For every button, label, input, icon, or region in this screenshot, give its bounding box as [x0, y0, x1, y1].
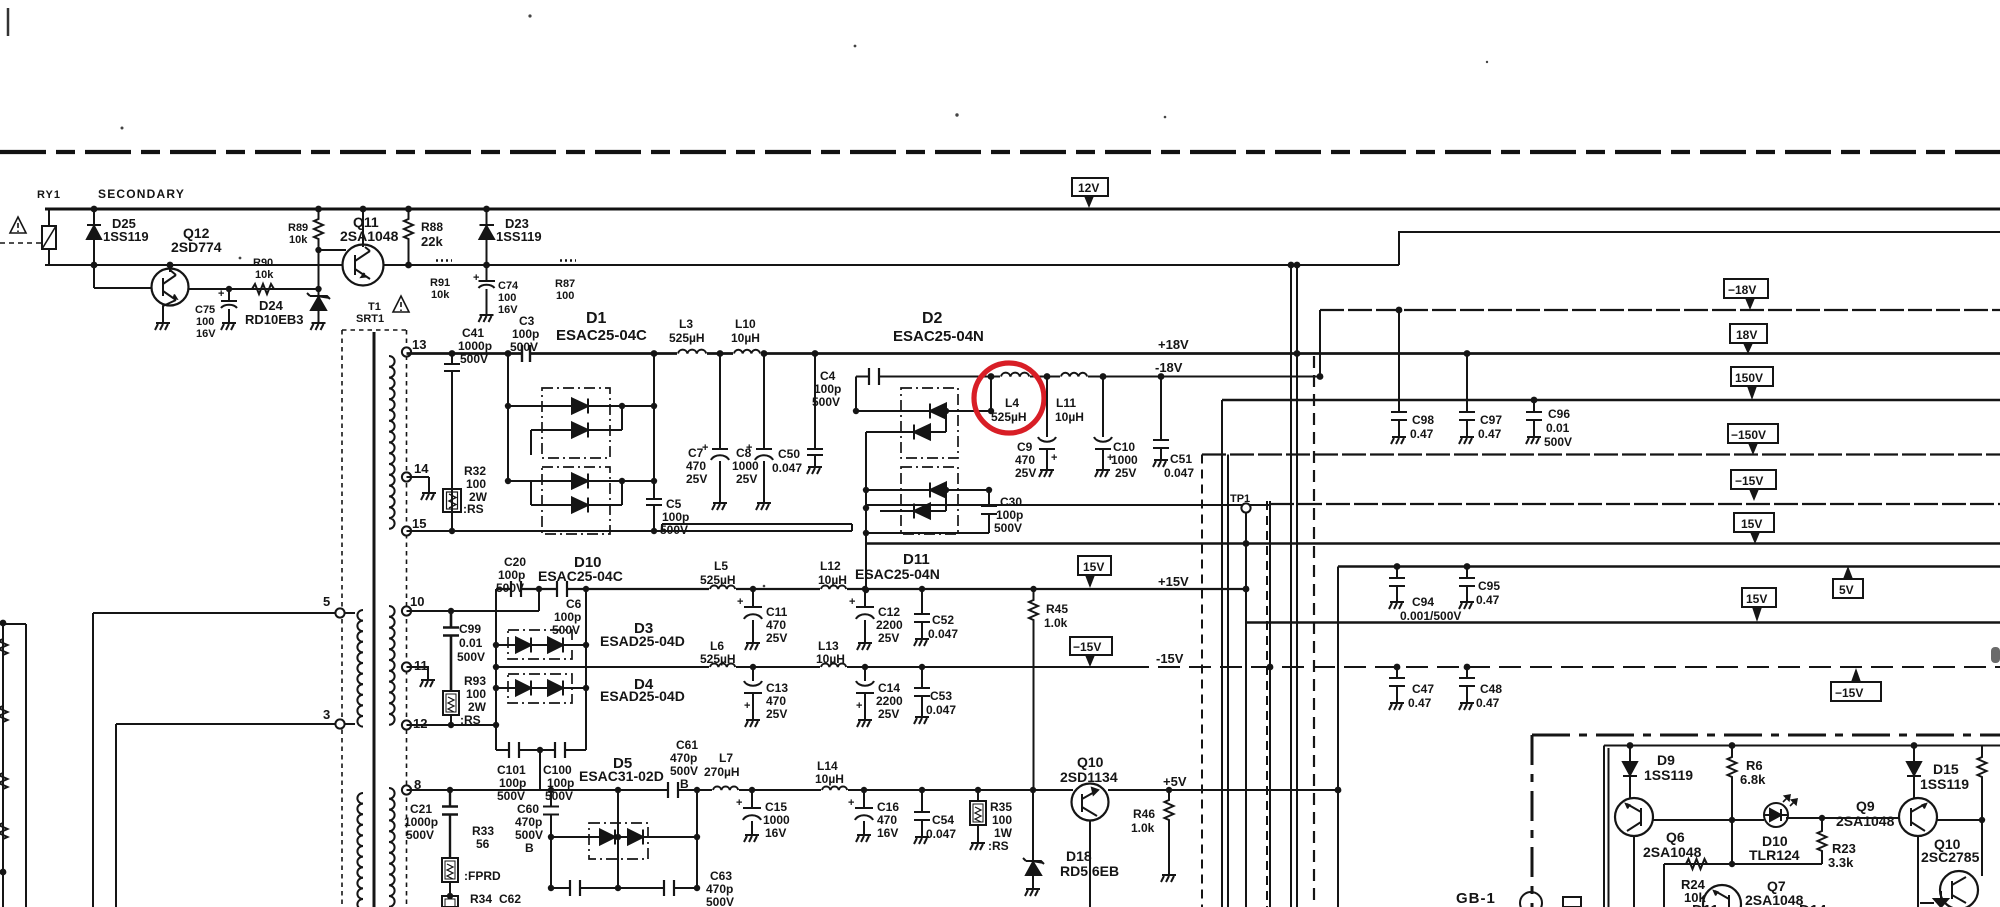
svg-text:0.47: 0.47: [1476, 593, 1500, 607]
svg-text:100p: 100p: [814, 382, 841, 396]
svg-text:2SA1048: 2SA1048: [1643, 844, 1702, 860]
rectifier D3 box: [508, 630, 572, 659]
svg-text:0.47: 0.47: [1476, 696, 1500, 710]
5V distribution rail: [1338, 565, 2000, 567]
D1 output riser with capacitor C5: [646, 354, 662, 532]
D4 diode line: [496, 687, 586, 689]
svg-text:25V: 25V: [878, 631, 899, 645]
resistor far right: [1978, 746, 1987, 821]
D5 right riser: [696, 790, 698, 888]
svg-text:2SD774: 2SD774: [171, 239, 222, 255]
svg-text:R34: R34: [470, 892, 492, 906]
svg-text:1000: 1000: [763, 813, 790, 827]
svg-text:470: 470: [1015, 453, 1035, 467]
svg-text:56: 56: [476, 837, 490, 851]
wire pin 12 line: [407, 724, 497, 726]
svg-text:C47: C47: [1412, 682, 1434, 696]
svg-text:+: +: [737, 596, 743, 608]
svg-text::RS: :RS: [988, 839, 1009, 853]
pin 5 circle and number: [335, 608, 344, 617]
vertical bus at x1297: [1296, 265, 1298, 907]
wire relay to bus A: [48, 209, 50, 226]
rectifier D5 box: [589, 823, 648, 859]
wire L4 riser from D2 output: [990, 377, 992, 412]
vertical bus dashed at x1267: [1266, 501, 1268, 907]
svg-text:3.3k: 3.3k: [1828, 855, 1854, 870]
D5 mid riser: [617, 790, 619, 888]
D5 diode line: [551, 836, 697, 838]
transistor Q12 circle: [152, 269, 189, 306]
svg-text:R23: R23: [1832, 841, 1856, 856]
left chain resistor 3: [0, 773, 8, 789]
wire Q9 emitter down: [1917, 836, 1919, 907]
150V arrow: [1747, 386, 1757, 400]
svg-text:D24: D24: [259, 298, 284, 313]
svg-text:15V: 15V: [1746, 592, 1767, 606]
transformer core: [373, 332, 376, 907]
junction dots 5V rail: [1394, 563, 1471, 570]
svg-text:25V: 25V: [878, 707, 899, 721]
svg-text:R46: R46: [1133, 807, 1155, 821]
series capacitor C101: [509, 742, 519, 758]
svg-text:B: B: [680, 777, 689, 791]
series capacitor on bottom line (right): [664, 880, 674, 896]
svg-text:C8: C8: [736, 446, 752, 460]
dashed wire into relay: [0, 242, 42, 244]
-15V line: [496, 666, 1127, 668]
transistor Q9 circle: [1899, 798, 1937, 836]
ground below C52: [914, 634, 929, 646]
svg-text:D18: D18: [1066, 848, 1092, 864]
scan speck marks: [121, 14, 1489, 587]
svg-text:500V: 500V: [812, 395, 840, 409]
wire Q10 collector down: [1089, 821, 1091, 907]
svg-text:16V: 16V: [765, 826, 786, 840]
capacitor C96: [1526, 400, 1542, 432]
svg-text:C4: C4: [820, 369, 836, 383]
svg-text:5V: 5V: [1839, 583, 1854, 597]
15V arrow (second): [1752, 607, 1762, 622]
svg-text:1000: 1000: [732, 459, 759, 473]
GB-1 dash-dot border horizontal: [1532, 734, 2000, 737]
transformer secondary winding pin 8 down: [389, 788, 395, 907]
inductor L3: [677, 351, 707, 357]
svg-text:470: 470: [877, 813, 897, 827]
-18V distribution rail: [1320, 309, 2000, 311]
svg-text:500V: 500V: [457, 650, 485, 664]
inductor L14: [821, 787, 848, 793]
svg-text:25V: 25V: [766, 707, 787, 721]
svg-text:150V: 150V: [1735, 371, 1763, 385]
junction dots bus B: [91, 247, 1301, 292]
ground below C15: [744, 830, 759, 842]
D1 diode row 2: [531, 406, 622, 430]
GB-1 inner board border left (double): [1604, 746, 1609, 907]
svg-text:10µH: 10µH: [731, 331, 760, 345]
zener D24: [307, 289, 330, 318]
svg-text:C41: C41: [462, 326, 484, 340]
D3/D4 right riser: [585, 589, 587, 750]
-18V label box: [1724, 279, 1768, 298]
svg-text:C30: C30: [1000, 495, 1022, 509]
svg-text:C15: C15: [765, 800, 787, 814]
svg-text:ESAC31-02D: ESAC31-02D: [579, 768, 664, 784]
capacitor C15: [743, 790, 761, 830]
resistor R35 (box style): [977, 790, 979, 801]
svg-text:C101: C101: [497, 763, 526, 777]
transistor Q11 circle: [343, 245, 384, 286]
svg-text:+: +: [736, 797, 742, 809]
svg-text:+: +: [848, 797, 854, 809]
svg-text:0.047: 0.047: [928, 627, 958, 641]
svg-text:R93: R93: [464, 674, 486, 688]
svg-text:C13: C13: [766, 681, 788, 695]
warning symbol near T1: [393, 296, 409, 312]
svg-text:14: 14: [414, 461, 429, 476]
wire Q11 collector to bus A: [363, 209, 370, 251]
capacitor C9: [1038, 377, 1056, 466]
svg-text:GB-1: GB-1: [1456, 890, 1496, 907]
svg-text:C54: C54: [932, 813, 954, 827]
ground below C96: [1526, 432, 1541, 444]
svg-text:C5: C5: [666, 497, 682, 511]
ground below C9: [1039, 465, 1054, 477]
svg-text:C99: C99: [459, 622, 481, 636]
+5V feed line (pin 8): [407, 789, 1339, 791]
wire pin 14 line: [407, 477, 430, 488]
svg-text:+: +: [1051, 452, 1057, 464]
pin 3 circle and number: [335, 719, 344, 728]
ground below C75: [221, 318, 236, 330]
capacitor C21: [442, 790, 458, 858]
transistor Q10 (GB-1) circle: [1940, 871, 1978, 907]
svg-text:C3: C3: [519, 314, 535, 328]
svg-text:R35: R35: [990, 800, 1012, 814]
svg-text:500V: 500V: [515, 828, 543, 842]
resistor R32 (box style on C41 riser): [443, 489, 461, 512]
wire Q12 base line (node to D24/R89): [94, 288, 320, 289]
bus B step up at right: [1399, 232, 2000, 265]
wire pin 3 line: [116, 723, 355, 725]
15V arrow (mid): [1085, 575, 1095, 588]
svg-text:16V: 16V: [877, 826, 898, 840]
svg-text:R87: R87: [555, 278, 575, 290]
svg-text:L12: L12: [820, 559, 841, 573]
pin 15 circle and number: [402, 526, 411, 535]
-15V distribution rail: [866, 504, 1270, 506]
resistor R46: [1165, 790, 1174, 870]
wire Q6 emitter down: [1633, 836, 1635, 907]
inductor L6: [709, 664, 736, 670]
svg-text:500V: 500V: [406, 828, 434, 842]
svg-text:1SS119: 1SS119: [1644, 767, 1693, 783]
svg-text:0.047: 0.047: [926, 703, 956, 717]
svg-text:D1: D1: [586, 310, 607, 327]
pin 14 circle and number: [402, 472, 411, 481]
svg-text:1000p: 1000p: [458, 339, 492, 353]
svg-text:12V: 12V: [1078, 181, 1099, 195]
svg-text:0.01: 0.01: [1546, 421, 1570, 435]
LED D10 symbol: [1765, 809, 1787, 821]
12V arrow: [1084, 196, 1094, 208]
15V label box: [1734, 513, 1774, 532]
svg-text:25V: 25V: [686, 472, 707, 486]
svg-text:C61: C61: [676, 738, 698, 752]
18V arrow: [1743, 343, 1753, 354]
diode D23: [486, 209, 488, 265]
svg-text:10µH: 10µH: [816, 652, 845, 666]
svg-text:−15V: −15V: [1735, 474, 1763, 488]
svg-text:SRT1: SRT1: [356, 313, 384, 325]
D1 diode row 4: [531, 481, 622, 505]
svg-text:L6: L6: [710, 639, 724, 653]
capacitor C41 across winding: [444, 354, 460, 532]
15V label box (second): [1742, 588, 1776, 607]
resistor R24 (zigzag on line): [1686, 859, 1707, 869]
svg-text:100p: 100p: [499, 776, 526, 790]
svg-text:25V: 25V: [766, 631, 787, 645]
wire bottom line to pin8 line riser: [539, 750, 541, 790]
ground below C48: [1459, 698, 1474, 710]
svg-text:TP1: TP1: [1230, 493, 1250, 505]
ground below C11: [745, 638, 760, 650]
svg-text:10µH: 10µH: [818, 573, 847, 587]
junction dots GB-1: [1627, 742, 1986, 867]
capacitor C97: [1459, 354, 1475, 433]
capacitor C11: [744, 589, 762, 638]
15V label box (mid): [1078, 556, 1111, 575]
svg-text:500V: 500V: [460, 352, 488, 366]
svg-text:−15V: −15V: [1835, 686, 1863, 700]
relay RY1 contact box: [42, 226, 56, 249]
capacitor C95: [1459, 567, 1475, 598]
svg-text:C97: C97: [1480, 413, 1502, 427]
wire relay to bus B: [48, 249, 50, 265]
svg-text:470p: 470p: [515, 815, 542, 829]
svg-text:100p: 100p: [554, 610, 581, 624]
junction dots on riser x866: [863, 487, 869, 593]
svg-text:0.47: 0.47: [1408, 696, 1432, 710]
svg-text:525µH: 525µH: [700, 652, 736, 666]
capacitor C48: [1459, 667, 1475, 698]
svg-text:1W: 1W: [994, 826, 1013, 840]
svg-text:22k: 22k: [421, 234, 443, 249]
svg-text:0.047: 0.047: [1164, 466, 1194, 480]
svg-text::FPRD: :FPRD: [464, 869, 501, 883]
5V label box: [1833, 579, 1863, 598]
ground below C53: [914, 712, 929, 724]
junction dots +15V rail: [536, 540, 1250, 592]
svg-text:ESAC25-04C: ESAC25-04C: [556, 327, 647, 344]
-15V arrow: [1749, 489, 1759, 501]
svg-text:10µH: 10µH: [815, 772, 844, 786]
svg-text:100: 100: [196, 316, 214, 328]
svg-text:16V: 16V: [498, 304, 518, 316]
resistor R23: [1818, 818, 1827, 864]
svg-text:SECONDARY: SECONDARY: [98, 187, 185, 201]
wire R89/D24 junction vertical: [318, 250, 320, 289]
wire corner -18V to rail: [1319, 310, 1321, 377]
svg-text:15: 15: [412, 516, 426, 531]
ground below C10: [1095, 465, 1110, 477]
pin 10 circle and number: [402, 606, 411, 615]
svg-text:+5V: +5V: [1163, 774, 1187, 789]
wire pin 5 line: [93, 612, 355, 614]
resistor R45: [1029, 589, 1038, 790]
150V distribution rail: [1222, 399, 2000, 401]
svg-text:16V: 16V: [196, 328, 216, 340]
svg-text:TLR124: TLR124: [1749, 847, 1800, 863]
ground below C50: [807, 462, 822, 474]
diode D15 wire: [1913, 746, 1915, 800]
transformer primary winding pins 5-3: [357, 610, 363, 727]
svg-text:R91: R91: [430, 277, 450, 289]
transformer primary winding bottom section: [357, 793, 363, 907]
wire Q6 base line: [1653, 819, 1764, 821]
inductor L5: [709, 586, 736, 592]
svg-text:25V: 25V: [736, 472, 757, 486]
resistor R89 (bus A to Q11 base): [314, 209, 323, 250]
svg-text:10µH: 10µH: [1055, 410, 1084, 424]
svg-text:ESAC25-04N: ESAC25-04N: [893, 328, 984, 345]
svg-text:Q10: Q10: [1077, 754, 1104, 770]
svg-text:R32: R32: [464, 464, 486, 478]
svg-text:1SS119: 1SS119: [1920, 776, 1969, 792]
junction dots D1/D2 network: [449, 403, 994, 534]
18V label box: [1730, 324, 1767, 343]
svg-text:5: 5: [323, 594, 330, 609]
diode near Q10 (GB-1) partial: [1920, 891, 1948, 907]
svg-text:500V: 500V: [497, 789, 525, 803]
transformer secondary winding pins 10-12: [389, 606, 395, 725]
svg-text:15V: 15V: [1083, 560, 1104, 574]
series capacitor C20: [511, 581, 521, 597]
-150V arrow: [1748, 443, 1758, 455]
svg-text:1.0k: 1.0k: [1044, 616, 1068, 630]
-15V label box (second): [1831, 682, 1881, 701]
15V distribution rail: [866, 542, 2000, 544]
capacitor C99 (bold): [443, 611, 459, 691]
pin 12 circle and number: [402, 720, 411, 729]
junction dots -18V line: [988, 373, 1324, 380]
svg-text:L4: L4: [1005, 396, 1019, 410]
svg-text:D9: D9: [1657, 752, 1675, 768]
vertical bus at x1291: [1290, 265, 1292, 907]
diode D9 wire: [1629, 746, 1631, 800]
test point TP1: [1241, 503, 1250, 512]
scan artifact tick top-left: [7, 8, 10, 36]
svg-text:C75: C75: [195, 304, 215, 316]
wire Q11 base: [319, 249, 347, 251]
capacitor C75: [221, 289, 237, 318]
svg-text:D2: D2: [922, 310, 943, 327]
12V label box: [1072, 178, 1108, 196]
red annotation circle around L4: [974, 363, 1044, 433]
-15V arrow (mid): [1085, 655, 1095, 667]
svg-text:C63: C63: [710, 869, 732, 883]
left chain resistor 1: [0, 639, 8, 655]
capacitor C51: [1153, 377, 1169, 456]
ground below C94: [1389, 597, 1404, 609]
svg-text:RD10EB3: RD10EB3: [245, 312, 304, 327]
transformer secondary winding pins 13-15: [389, 356, 395, 529]
inductor L11: [1060, 374, 1088, 380]
svg-text:D15: D15: [1933, 761, 1959, 777]
svg-text:ESAD25-04D: ESAD25-04D: [600, 633, 685, 649]
diode D25 symbol: [87, 225, 101, 239]
svg-text:500V: 500V: [660, 523, 688, 537]
transistor Q12 internals: [163, 275, 177, 300]
series capacitor C61: [668, 782, 678, 798]
svg-text:470p: 470p: [670, 751, 697, 765]
svg-text:0.47: 0.47: [1410, 427, 1434, 441]
series capacitor C4: [869, 368, 879, 385]
transistor Q10 (GB-1) internals: [1952, 877, 1966, 903]
svg-text:C53: C53: [930, 689, 952, 703]
resistor R87 (dotted style on bus B): [560, 259, 576, 262]
capacitor C8: [755, 354, 773, 499]
svg-text:10: 10: [410, 594, 424, 609]
left chain resistor 2: [0, 706, 8, 722]
svg-text:-15V: -15V: [1156, 651, 1184, 666]
junction dots D5 rows: [447, 834, 700, 899]
svg-text:C14: C14: [878, 681, 900, 695]
left chain second wire: [3, 624, 26, 907]
svg-text:C12: C12: [878, 605, 900, 619]
capacitor C98: [1391, 310, 1407, 432]
svg-text::RS: :RS: [463, 502, 484, 516]
svg-text:C62: C62: [499, 892, 521, 906]
svg-text:−150V: −150V: [1731, 428, 1766, 442]
svg-text:C48: C48: [1480, 682, 1502, 696]
svg-text:C100: C100: [543, 763, 572, 777]
svg-text:100: 100: [556, 290, 574, 302]
D2 diode row 1: [856, 410, 991, 412]
svg-text:2SD1134: 2SD1134: [1060, 769, 1118, 785]
rectifier D1 upper box: [542, 388, 610, 458]
capacitor C12: [856, 589, 874, 638]
vertical bus at x1222: [1221, 400, 1223, 907]
svg-text:500V: 500V: [706, 895, 734, 907]
svg-text:R88: R88: [421, 220, 443, 234]
D3 diode line: [496, 644, 586, 646]
svg-text:0.047: 0.047: [926, 827, 956, 841]
-150V distribution rail: [1202, 453, 2000, 455]
junction dots right rails: [1396, 307, 1538, 404]
svg-text:C50: C50: [778, 447, 800, 461]
svg-text:ESAC25-04N: ESAC25-04N: [855, 566, 940, 582]
wire C4 bypass line: [856, 376, 991, 378]
connector circle below GB-1: [1520, 892, 1542, 907]
D1 diode row 3: [508, 480, 654, 482]
svg-text:100p: 100p: [996, 508, 1023, 522]
svg-text:C20: C20: [504, 555, 526, 569]
ground below C74: [479, 310, 494, 322]
ground below C8: [756, 498, 771, 510]
series capacitor C100: [555, 742, 565, 758]
svg-text:B: B: [525, 841, 534, 855]
svg-text:525µH: 525µH: [669, 331, 705, 345]
top dashed border line: [0, 150, 2000, 154]
svg-text:25V: 25V: [1115, 466, 1136, 480]
capacitor C7: [711, 354, 729, 499]
svg-text:+18V: +18V: [1158, 337, 1189, 352]
resistor R93 (box style): [443, 691, 459, 715]
svg-text:C94: C94: [1412, 595, 1434, 609]
150V label box: [1731, 367, 1773, 386]
svg-text:L13: L13: [818, 639, 839, 653]
svg-text:1.0k: 1.0k: [1131, 821, 1155, 835]
